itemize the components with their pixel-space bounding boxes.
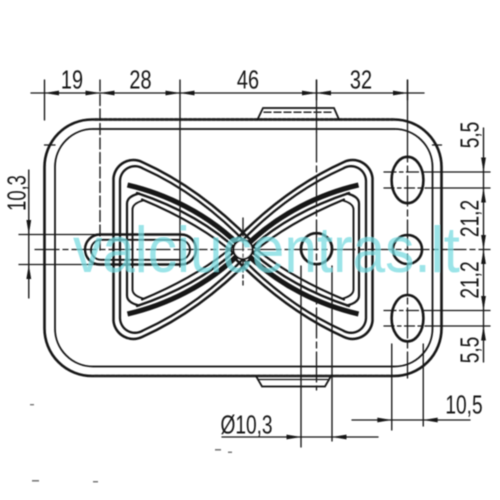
bottom right dimension line 10.5 <box>352 419 470 421</box>
left inner triangle outer: left edge <box>127 194 139 306</box>
vertical center line through D10.3 circle <box>316 80 318 132</box>
right middle circle hole <box>393 235 422 264</box>
right thick diagonal top <box>241 185 359 251</box>
top dimension line <box>31 92 424 94</box>
svg-text:28: 28 <box>129 65 151 94</box>
extension line slot top left <box>19 234 103 236</box>
left slot inner contour <box>91 240 190 260</box>
bottom right arrows <box>377 418 437 423</box>
extension tick x316.5 top <box>316 80 318 100</box>
scan speckles <box>30 404 232 483</box>
right chain dimension line <box>483 128 485 362</box>
bowtie right triangle (mirror) <box>234 160 373 339</box>
svg-text:5,5: 5,5 <box>456 337 484 364</box>
vertical center line through right holes <box>407 80 409 132</box>
bottom tab inner line <box>259 379 328 381</box>
right rim outer <box>234 160 373 339</box>
svg-text:5,5: 5,5 <box>456 122 484 149</box>
right inner triangle outer: bottom edge <box>246 247 349 307</box>
plate bottom edge rough texture <box>95 375 393 377</box>
left rim outer <box>114 160 253 339</box>
bottom tab <box>256 376 331 387</box>
top dim arrows <box>45 91 408 96</box>
right inner triangle inner: top edge <box>249 200 344 257</box>
right rim inner <box>237 166 367 333</box>
left thick diagonal bottom <box>128 248 246 314</box>
extension line oval right edge down <box>422 344 424 426</box>
right inner triangle inner: bottom edge <box>249 243 344 300</box>
svg-text:19: 19 <box>61 65 83 94</box>
plate outer outline <box>45 120 442 377</box>
plate inner contour <box>55 129 433 367</box>
plate top edge rough texture <box>95 118 393 121</box>
extension tick x407.5 top <box>407 80 409 100</box>
extension line slot bottom left <box>19 264 122 266</box>
svg-text:10,3: 10,3 <box>3 175 32 211</box>
left rim inner <box>120 166 250 333</box>
bottom oval center line 2 <box>384 325 426 327</box>
svg-text:32: 32 <box>350 65 372 94</box>
left thick diagonal top <box>128 185 246 251</box>
top tab inner dashed line <box>264 111 333 113</box>
left slot outer <box>85 235 196 265</box>
left inner triangle outer: top edge <box>137 193 240 253</box>
extension line oval left edge down <box>391 344 393 430</box>
bowtie left triangle <box>114 160 253 339</box>
top oval center line 1 <box>384 171 426 173</box>
vertical center line through crossing <box>242 218 244 285</box>
svg-text:21,2: 21,2 <box>456 200 484 237</box>
right bottom slotted hole <box>392 295 424 341</box>
circle hole D10.3 <box>301 233 332 264</box>
right inner triangle outer: top edge <box>246 193 349 253</box>
right chain arrows <box>481 158 486 341</box>
horizontal main center line <box>35 249 490 251</box>
svg-text:Ø10,3: Ø10,3 <box>220 411 272 439</box>
right inner triangle outer: right edge <box>347 194 359 306</box>
bottom diameter dimension line <box>222 436 378 438</box>
corner joint mark left <box>45 144 56 146</box>
extension line circle left edge down <box>300 266 302 447</box>
extension line x180 <box>179 80 181 267</box>
svg-text:valciucentras.lt: valciucentras.lt <box>73 214 460 287</box>
left dimension line 10.3 <box>28 170 30 298</box>
extension line x100 <box>99 80 101 250</box>
extension line circle right edge down <box>331 266 333 441</box>
extension line x44 <box>44 80 46 120</box>
left dim arrows <box>26 220 31 279</box>
svg-text:46: 46 <box>237 65 259 94</box>
right inner triangle inner: right edge <box>343 201 354 299</box>
top oval center line 2 <box>384 187 426 189</box>
left inner triangle inner: left edge <box>133 201 144 299</box>
left inner triangle inner: bottom edge <box>142 243 237 300</box>
bottom dim arrows <box>287 435 347 440</box>
right top slotted hole <box>392 157 424 203</box>
svg-text:10,5: 10,5 <box>445 391 482 419</box>
svg-text:21,2: 21,2 <box>456 261 484 298</box>
left inner triangle inner: top edge <box>142 200 237 257</box>
left inner triangle outer: bottom edge <box>137 247 240 307</box>
right thick diagonal bottom <box>241 248 359 314</box>
top tab <box>258 108 340 120</box>
corner joint mark right <box>433 144 442 146</box>
center rosette small circle at crossing <box>234 240 253 259</box>
bottom oval center line 1 <box>384 310 426 312</box>
